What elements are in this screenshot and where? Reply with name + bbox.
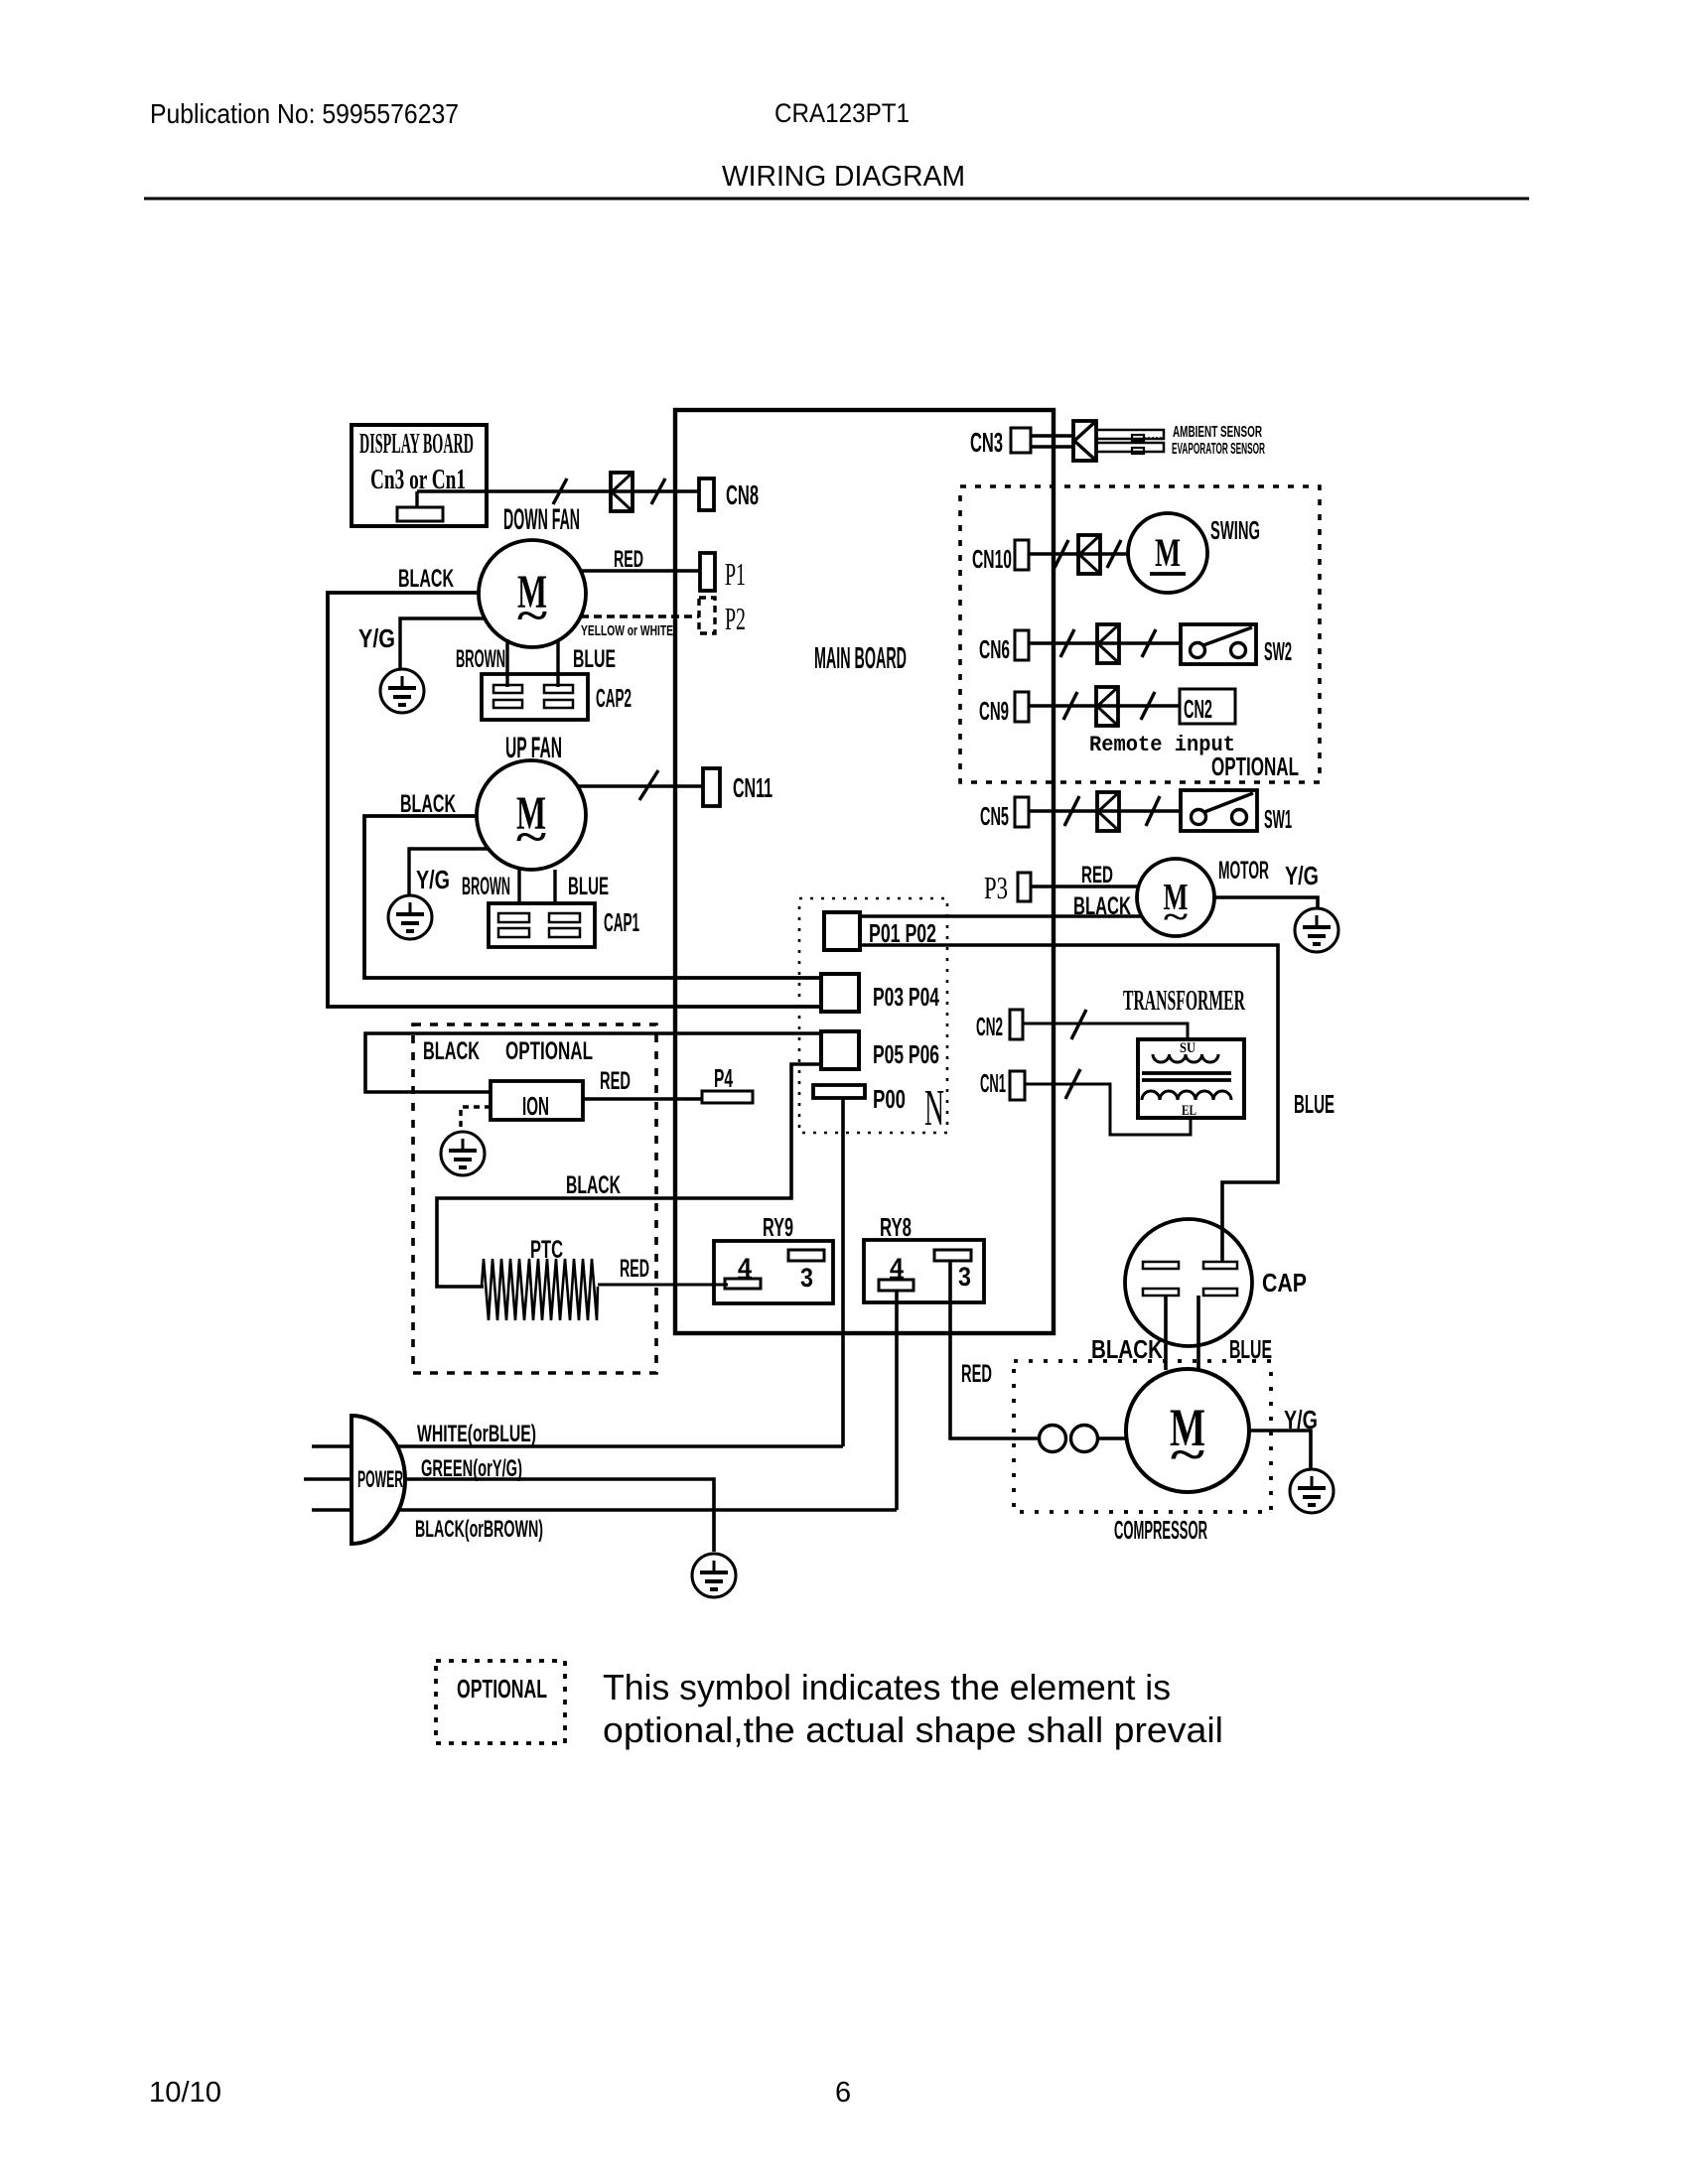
wire BLUE down fan to CAP2 [556,639,559,687]
label BROWN [456,645,505,673]
connector P2 dashed [699,598,715,633]
svg-text:3: 3 [800,1263,813,1293]
ground symbol power earth [692,1554,736,1597]
wire slash mark [1064,796,1079,826]
svg-text:POWER: POWER [357,1466,403,1493]
label P3 [984,870,1008,905]
label BLACK cap [1091,1334,1163,1364]
wire Y/G up fan to ground [409,849,489,895]
svg-text:DOWN FAN: DOWN FAN [503,503,580,536]
label CAP2 [596,683,632,713]
svg-text:~: ~ [516,815,546,861]
node group P0x dotted box [799,898,947,1133]
svg-text:EL: EL [1182,1103,1196,1119]
wire Y/G compressor to ground [1249,1431,1311,1470]
wire GREEN orY/G power to ground [405,1479,714,1552]
svg-text:BROWN: BROWN [462,873,510,900]
inline connector display board cable [611,473,633,511]
svg-text:N: N [924,1080,944,1137]
label BROWN up fan [462,873,510,900]
svg-text:SW2: SW2 [1264,636,1292,666]
wire RED RY8 pin3 to compressor [950,1261,1040,1438]
wire BROWN up fan to CAP1 [517,870,520,905]
label P1 [725,556,746,592]
inline connector remote [1096,687,1118,726]
label SW2 [1264,636,1292,666]
header rule [144,198,1529,201]
svg-text:ION: ION [522,1091,549,1121]
svg-text:EVAPORATOR SENSOR: EVAPORATOR SENSOR [1172,441,1265,458]
heater PTC zigzag element [482,1259,598,1320]
svg-text:P4: P4 [714,1063,733,1093]
title WIRING DIAGRAM [722,161,965,193]
label RED ptc [620,1255,649,1283]
display board connector pin [397,491,443,521]
connector CN8 [699,478,714,510]
wire BLACK P01 to right motor [860,914,1141,918]
connector CN6 [1015,630,1029,660]
overload protector [1040,1426,1128,1452]
svg-text:CN9: CN9 [979,696,1009,726]
svg-text:BLACK(orBROWN): BLACK(orBROWN) [415,1516,543,1543]
optional dashed box swing remote [960,486,1320,782]
label CN10 [972,544,1012,574]
label BLACK orBROWN [415,1516,543,1543]
connector CN11 [703,768,720,806]
label BLUE up fan [568,873,609,900]
svg-text:CN1: CN1 [980,1068,1006,1098]
connector CN1 [1010,1071,1025,1100]
label SW1 [1264,804,1292,834]
svg-text:CN5: CN5 [980,801,1009,831]
wire CN9 to CN2 remote [1029,704,1180,707]
optional dashed box ION PTC [413,1024,656,1373]
svg-text:CN8: CN8 [726,479,759,510]
wire neutral P00 down to power white [841,1098,845,1446]
node N label [924,1080,944,1137]
svg-text:YELLOW or WHITE: YELLOW or WHITE [581,622,673,639]
svg-text:MOTOR: MOTOR [1218,857,1269,885]
svg-text:3: 3 [958,1262,971,1292]
thermistor ambient sensor [1096,430,1164,441]
svg-text:~: ~ [1171,1431,1204,1479]
inline connector swing [1078,535,1100,574]
connector P03 P04 [821,974,859,1012]
svg-text:M: M [1155,530,1181,575]
label RED compressor wire [961,1360,992,1388]
motor M up fan [477,760,586,870]
transformer T1 [1138,1039,1244,1119]
label Remote input [1089,733,1235,757]
wire slash mark [1063,692,1077,720]
label AMBIENT SENSOR [1173,424,1262,441]
svg-text:RED: RED [961,1360,992,1388]
label BLACK up fan [400,790,456,818]
ground symbol ION [441,1132,485,1175]
svg-text:Publication No: 5995576237: Publication No: 5995576237 [150,98,459,129]
svg-text:RY9: RY9 [763,1212,793,1242]
svg-text:6: 6 [835,2077,851,2109]
legend text line 1 [603,1667,1171,1707]
label CAP1 [604,907,639,937]
svg-text:BLUE: BLUE [1294,1089,1335,1119]
power plug [304,1416,405,1544]
wire slash mark [1146,796,1160,826]
svg-text:CN2: CN2 [1184,694,1212,724]
wire BLACK up fan to P03 [364,816,821,978]
label BLACK ion [423,1037,480,1065]
ground symbol right motor [1295,908,1338,952]
label RED [614,546,643,573]
wire RED ION to P4 [583,1097,702,1101]
connector P01 P02 [824,912,860,950]
svg-text:~: ~ [1164,898,1189,934]
relay RY8 label [880,1212,912,1242]
svg-text:COMPRESSOR: COMPRESSOR [1114,1515,1207,1545]
svg-text:GREEN(orY/G): GREEN(orY/G) [421,1455,522,1482]
legend optional dashed box [436,1661,565,1743]
wire WHITE orBLUE power to P00 [397,1444,843,1448]
relay RY9 pin 4 [725,1253,761,1289]
header publication number [150,98,459,129]
label P00 [873,1084,906,1114]
wire slash mark [1060,629,1074,657]
wire CN5 to SW1 [1029,809,1181,812]
wire slash mark [639,770,658,800]
svg-text:CN2: CN2 [976,1012,1003,1041]
wire BROWN down fan to CAP2 [505,639,508,687]
label RED ion [600,1067,631,1095]
label BLACK down fan [398,565,454,593]
main board U1 outline [675,410,1054,1333]
switch SW2 [1181,624,1256,664]
svg-text:AMBIENT SENSOR: AMBIENT SENSOR [1173,424,1262,441]
svg-text:TRANSFORMER: TRANSFORMER [1123,986,1245,1017]
label POWER [357,1466,403,1493]
label Y/G compressor [1284,1405,1318,1434]
svg-text:P03 P04: P03 P04 [873,982,939,1012]
svg-text:WIRING DIAGRAM: WIRING DIAGRAM [722,161,965,193]
svg-text:CAP1: CAP1 [604,907,639,937]
capacitor CAP1 [489,903,595,947]
svg-text:Y/G: Y/G [416,865,450,894]
inline connector sensors [1073,421,1096,461]
svg-text:BLUE: BLUE [573,645,616,673]
connector P05 P06 [821,1031,859,1069]
wire CN10 to swing motor [1029,552,1129,555]
label CN8 [726,479,759,510]
label RED motor [1081,862,1113,888]
svg-text:BLUE: BLUE [1229,1334,1272,1364]
motor M swing [1128,513,1207,593]
label P4 [714,1063,733,1093]
relay RY8 [864,1240,984,1302]
ground symbol down fan [380,669,424,713]
label BLUE [573,645,616,673]
motor M down fan [479,540,586,647]
switch SW1 [1181,790,1257,831]
svg-text:SWING: SWING [1210,515,1260,545]
wire CN6 to SW2 [1029,641,1181,644]
connector P3 [1018,873,1031,901]
wire slash mark [1071,1010,1086,1039]
footer page number 6 [835,2077,851,2109]
wire slash mark [553,478,567,504]
wire display board to CN8 [417,489,699,493]
label OPTIONAL ion box [505,1037,593,1065]
wire dashed ION to ground [461,1107,491,1132]
svg-text:BLACK: BLACK [1091,1334,1163,1364]
wire BLUE up fan to CAP1 [553,870,556,905]
wire Y/G down fan to ground [400,618,486,669]
main board label [814,640,907,675]
display board outline [352,425,487,526]
inline connector SW2 [1097,624,1119,663]
svg-text:10/10: 10/10 [149,2077,221,2109]
wire P06 to PTC [437,1064,821,1287]
label YELLOW or WHITE [581,622,673,639]
svg-text:Y/G: Y/G [1285,861,1319,890]
capacitor CAP2 [482,674,588,720]
inline connector SW1 [1097,792,1119,831]
svg-text:CN11: CN11 [733,772,773,803]
label GREEN orY/G [421,1455,522,1482]
label BLACK ptc wire [566,1171,621,1199]
label P2 [725,601,746,636]
label TRANSFORMER [1123,986,1245,1017]
display board connector label Cn3 or Cn1 [370,464,466,495]
display board label [359,428,474,460]
svg-text:P3: P3 [984,870,1008,905]
motor M compressor [1126,1369,1249,1492]
label CAP [1262,1268,1307,1297]
connector CN10 [1015,540,1029,570]
svg-text:BLACK: BLACK [1073,892,1131,920]
label CN11 [733,772,773,803]
svg-text:CN6: CN6 [979,634,1010,664]
svg-text:Y/G: Y/G [358,623,395,653]
relay RY9 pin 3 [788,1250,824,1293]
wire BLUE P02 to CAP [860,945,1278,1263]
connector CN5 [1015,797,1029,827]
legend text line 2 [603,1709,1223,1750]
label WHITE orBLUE [417,1421,536,1447]
label CN2 [976,1012,1003,1041]
label CN1 [980,1068,1006,1098]
connector CN2 remote box [1180,689,1235,724]
wire RED PTC to RY9 pin 4 [598,1284,728,1287]
label CN6 [979,634,1010,664]
wire YELLOW or WHITE dashed down fan to P2 [581,614,699,617]
label Y/G up fan [416,865,450,894]
svg-text:optional,the actual shape shal: optional,the actual shape shall prevail [603,1709,1223,1750]
wire Y/G motor to ground [1214,897,1318,908]
svg-text:CN10: CN10 [972,544,1012,574]
label Y/G motor [1285,861,1319,890]
thermistor evaporator sensor [1096,443,1164,454]
legend label OPTIONAL [457,1674,547,1704]
label CN3 [970,427,1003,458]
svg-text:RED: RED [620,1255,649,1283]
relay RY9 label [763,1212,793,1242]
connector CN2 [1010,1010,1023,1039]
wire slash mark [1142,629,1156,657]
wire RY8 pin4 down to power black [895,1291,899,1510]
svg-text:BLUE: BLUE [568,873,609,900]
wire slash mark [1107,540,1121,568]
connector CN3 [1011,428,1031,453]
connector P1 [700,553,715,591]
svg-text:BROWN: BROWN [456,645,505,673]
svg-text:This symbol indicates the elem: This symbol indicates the element is [603,1667,1171,1707]
wire BLACK cap to compressor [1164,1296,1168,1370]
label P03 P04 [873,982,939,1012]
svg-text:P05 P06: P05 P06 [873,1039,939,1069]
wire slash mark [1055,540,1068,568]
ionizer ION [491,1081,583,1121]
motor M right side [1137,859,1214,936]
wire slash mark [651,478,665,504]
svg-text:BLACK: BLACK [398,565,454,593]
svg-text:RED: RED [614,546,643,573]
svg-text:MAIN BOARD: MAIN BOARD [814,640,907,675]
ground symbol compressor [1290,1469,1334,1513]
connector CN9 [1015,692,1029,722]
svg-text:CRA123PT1: CRA123PT1 [774,98,910,128]
svg-text:CAP2: CAP2 [596,683,632,713]
label CN5 [980,801,1009,831]
svg-text:CN3: CN3 [970,427,1003,458]
label Y/G down fan [358,623,395,653]
wire BLUE cap to compressor [1196,1296,1200,1370]
compressor dashed box [1014,1361,1271,1512]
svg-text:OPTIONAL: OPTIONAL [457,1674,547,1704]
wire CN3 to sensor connector [1031,436,1073,447]
label COMPRESSOR [1114,1515,1207,1545]
svg-text:RED: RED [600,1067,631,1095]
label UP FAN [505,732,562,764]
capacitor CAP run [1125,1219,1252,1346]
connector P00 [813,1085,865,1098]
label BLUE wire [1294,1089,1335,1119]
label CN9 [979,696,1009,726]
label SWING [1210,515,1260,545]
svg-text:RY8: RY8 [880,1212,912,1242]
wire CN2 to transformer primary [1023,1024,1188,1039]
label BLUE cap [1229,1334,1272,1364]
wire RED P3 to right motor [1031,885,1139,888]
relay RY8 pin 4 [879,1253,914,1291]
svg-text:BLACK: BLACK [566,1171,621,1199]
svg-text:P1: P1 [725,556,746,592]
ground symbol up fan [388,895,432,939]
svg-text:P00: P00 [873,1084,906,1114]
svg-text:P2: P2 [725,601,746,636]
wire CN1 to transformer secondary [1025,1084,1191,1135]
label P05 P06 [873,1039,939,1069]
wire RED down fan to P1 [581,569,700,573]
header model number CRA123PT1 [774,98,910,128]
svg-text:BLACK: BLACK [400,790,456,818]
label PTC [530,1236,563,1264]
connector P4 [702,1091,753,1103]
svg-text:Remote input: Remote input [1089,733,1235,757]
label OPTIONAL swing box [1211,751,1299,781]
svg-text:DISPLAY BOARD: DISPLAY BOARD [359,428,474,460]
wire up fan to CN11 [577,784,703,788]
relay RY8 pin 3 [934,1250,971,1292]
wire BLACK orBROWN power to RY8 [397,1508,897,1512]
footer page date 10/10 [149,2077,221,2109]
svg-text:BLACK: BLACK [423,1037,480,1065]
wire slash mark [1141,692,1155,720]
label BLACK motor [1073,892,1131,920]
svg-text:RED: RED [1081,862,1113,888]
svg-text:OPTIONAL: OPTIONAL [505,1037,593,1065]
svg-text:SW1: SW1 [1264,804,1292,834]
label P01 P02 [869,918,936,948]
relay RY9 [714,1241,833,1303]
svg-text:CAP: CAP [1262,1268,1307,1297]
label MOTOR [1218,857,1269,885]
wire slash mark [1065,1069,1080,1099]
wire P05 to ION [365,1033,821,1092]
svg-text:WHITE(orBLUE): WHITE(orBLUE) [417,1421,536,1447]
label DOWN FAN [503,503,580,536]
label EVAPORATOR SENSOR [1172,441,1265,458]
wire BLACK down fan to P04 [328,593,821,1007]
svg-text:~: ~ [517,594,547,639]
svg-text:SU: SU [1180,1040,1196,1056]
